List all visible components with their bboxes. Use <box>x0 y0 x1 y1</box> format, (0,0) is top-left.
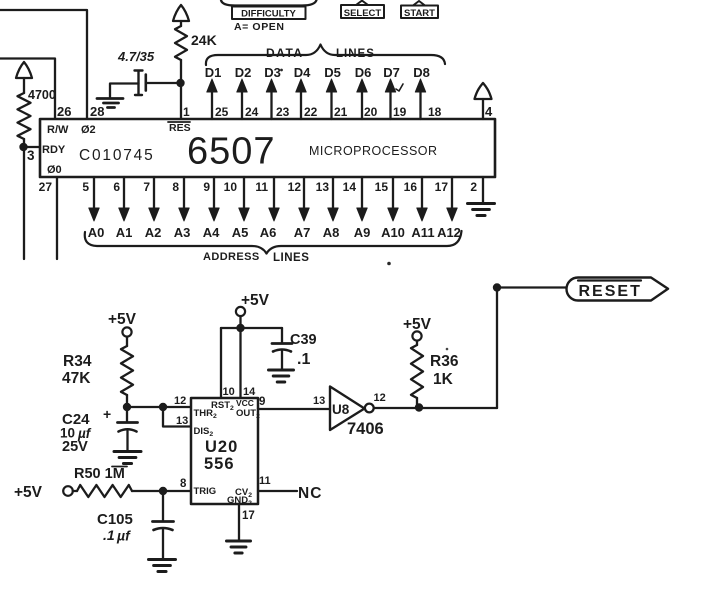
svg-text:17: 17 <box>435 180 449 194</box>
svg-text:4.7/35: 4.7/35 <box>117 49 155 64</box>
capacitor C24 (polarized) <box>60 406 138 455</box>
svg-text:12: 12 <box>288 180 302 194</box>
ADDRESS LINES text <box>203 251 309 264</box>
svg-text:D7: D7 <box>383 65 400 80</box>
ground (C39) <box>269 370 294 382</box>
svg-text:ADDRESS: ADDRESS <box>203 251 260 263</box>
svg-text:24K: 24K <box>191 32 217 48</box>
ground (C24) <box>114 452 141 464</box>
svg-text:A9: A9 <box>354 225 371 240</box>
svg-text:22: 22 <box>304 105 318 119</box>
IC U20 556 timer body <box>191 398 258 504</box>
svg-text:A2: A2 <box>145 225 162 240</box>
svg-text:START: START <box>404 8 435 19</box>
capacitor C39 <box>272 332 317 369</box>
svg-text:7: 7 <box>143 180 150 194</box>
resistor R34 47K <box>62 346 133 407</box>
bottom pin number labels <box>39 180 478 194</box>
console switch tab (rounded, cut off) <box>221 0 317 6</box>
svg-text:A= OPEN: A= OPEN <box>234 21 285 33</box>
svg-text:.1: .1 <box>297 351 310 368</box>
svg-text:6507: 6507 <box>187 131 276 173</box>
svg-text:A3: A3 <box>174 225 191 240</box>
svg-text:R34: R34 <box>63 353 92 370</box>
svg-text:RESET: RESET <box>579 283 642 300</box>
DIFFICULTY switch box <box>232 7 306 20</box>
SELECT switch box <box>341 1 384 19</box>
svg-text:TRIG: TRIG <box>194 486 217 497</box>
pin 1 RES label (active low) <box>168 122 191 134</box>
svg-text:SELECT: SELECT <box>344 8 382 19</box>
svg-text:12: 12 <box>174 395 186 407</box>
svg-text:D3: D3 <box>264 65 281 80</box>
address bus pins A0-A12 arrows down <box>89 177 457 221</box>
svg-text:Ø2: Ø2 <box>81 124 96 136</box>
IC 6507 microprocessor body <box>40 119 495 177</box>
svg-text:D1: D1 <box>205 65 222 80</box>
wire 24K to pin 1, node at cap tap <box>176 60 184 119</box>
svg-text:4700: 4700 <box>28 88 56 102</box>
svg-text:20: 20 <box>364 105 378 119</box>
U20 designator text <box>204 438 238 473</box>
svg-text:556: 556 <box>204 455 235 473</box>
svg-text:R50 1M: R50 1M <box>74 466 125 482</box>
DATA LINES brace <box>206 45 445 66</box>
svg-text:VCC: VCC <box>236 398 254 408</box>
svg-text:+5V: +5V <box>108 311 137 328</box>
wire pin 2 to ground <box>482 177 484 202</box>
svg-text:NC: NC <box>298 485 322 502</box>
stray pen check near D7 <box>396 84 403 91</box>
svg-text:C39: C39 <box>290 332 317 348</box>
wire to pin 13 DIS <box>163 407 191 427</box>
svg-text:C010745: C010745 <box>79 147 155 164</box>
data line labels D1-D8 <box>205 65 430 80</box>
svg-text:+5V: +5V <box>14 484 43 501</box>
ground (U20 pin 17) <box>227 541 251 553</box>
node THR junction / wire to pin 12 <box>123 403 191 411</box>
svg-text:2: 2 <box>470 180 477 194</box>
svg-text:Ø0: Ø0 <box>47 164 62 176</box>
svg-text:A12: A12 <box>437 225 461 240</box>
resistor R50 1M (with bar) <box>74 466 132 497</box>
wire R50 to pin 8 TRIG / node <box>132 487 191 495</box>
svg-text:RES: RES <box>169 122 191 134</box>
svg-text:5: 5 <box>82 180 89 194</box>
svg-text:D4: D4 <box>294 65 311 80</box>
svg-text:16: 16 <box>404 180 418 194</box>
svg-text:A6: A6 <box>260 225 277 240</box>
svg-text:RDY: RDY <box>42 144 66 156</box>
wire net to pin 26 (left) <box>0 59 55 120</box>
svg-text:27: 27 <box>39 180 53 194</box>
resistor R36 1K <box>411 345 459 407</box>
svg-text:14: 14 <box>243 386 256 398</box>
svg-text:A8: A8 <box>323 225 340 240</box>
svg-text:6: 6 <box>113 180 120 194</box>
svg-text:13: 13 <box>176 415 188 427</box>
svg-text:19: 19 <box>393 105 407 119</box>
wire U8 output to riser <box>374 403 497 411</box>
svg-text:A11: A11 <box>411 225 434 240</box>
svg-text:A10: A10 <box>381 225 405 240</box>
svg-text:10: 10 <box>224 180 238 194</box>
svg-text:C105: C105 <box>97 511 133 528</box>
wire 4700 down / node pin3 junction <box>19 139 40 259</box>
svg-text:R36: R36 <box>430 353 459 370</box>
svg-text:A1: A1 <box>116 225 133 240</box>
svg-text:U8: U8 <box>332 402 350 417</box>
svg-text:15: 15 <box>375 180 389 194</box>
svg-text:10: 10 <box>223 386 235 398</box>
svg-text:26: 26 <box>57 104 71 119</box>
svg-text:+5V: +5V <box>241 292 270 309</box>
svg-text:.1: .1 <box>103 527 115 543</box>
DATA LINES text <box>266 46 375 60</box>
power +5V terminal (R50) <box>14 484 77 501</box>
svg-text:18: 18 <box>428 105 442 119</box>
inverter U8 7406 <box>330 387 384 439</box>
svg-text:1K: 1K <box>433 371 454 388</box>
U20 internal pin names <box>194 398 261 507</box>
capacitor 4.7/35 <box>110 49 176 97</box>
power +5V arrow (above 4700) <box>16 62 32 93</box>
power +5V terminal (R34) <box>108 311 137 346</box>
svg-text:LINES: LINES <box>273 252 309 264</box>
svg-text:28: 28 <box>90 104 104 119</box>
ground (C105) <box>149 560 176 572</box>
svg-text:A0: A0 <box>88 225 105 240</box>
svg-text:11: 11 <box>259 475 271 487</box>
svg-text:4: 4 <box>485 104 493 119</box>
svg-text:D5: D5 <box>324 65 341 80</box>
svg-text:21: 21 <box>334 105 348 119</box>
resistor 24K <box>175 26 217 60</box>
IC 6507 internal labels <box>42 124 438 176</box>
svg-text:U20: U20 <box>205 438 238 456</box>
svg-text:25V: 25V <box>62 439 88 455</box>
svg-text:R/W: R/W <box>47 124 69 136</box>
wire riser to RESET / node <box>493 283 567 408</box>
svg-text:25: 25 <box>215 105 229 119</box>
wire pin 27 down <box>56 177 58 259</box>
power +5V terminal (R36) <box>403 316 432 345</box>
svg-text:23: 23 <box>276 105 290 119</box>
svg-text:47K: 47K <box>62 370 91 387</box>
svg-text:11: 11 <box>255 180 268 194</box>
address line labels A0-A12 <box>88 225 461 240</box>
ADDRESS LINES brace <box>85 231 462 254</box>
svg-text:24: 24 <box>245 105 259 119</box>
power +5V terminal (U20 supply) <box>236 292 270 328</box>
wire U20 pin 9 to U8 input <box>258 408 330 410</box>
svg-text:17: 17 <box>242 510 255 522</box>
svg-text:12: 12 <box>374 392 386 404</box>
capacitor C105 <box>97 491 174 558</box>
svg-text:A4: A4 <box>203 225 220 240</box>
top pin number labels <box>57 104 493 119</box>
ground (pin 2) <box>468 204 495 216</box>
power +5V arrow (above 24K) <box>173 5 189 26</box>
svg-text:D6: D6 <box>355 65 372 80</box>
svg-text:13: 13 <box>313 395 325 407</box>
svg-text:9: 9 <box>203 180 210 194</box>
wire net to pin 28 (top-left) <box>0 10 87 119</box>
ground (4.7/35 cap) <box>97 99 123 108</box>
svg-text:8: 8 <box>172 180 179 194</box>
svg-text:7406: 7406 <box>347 420 384 438</box>
resistor 4700 <box>18 88 56 139</box>
svg-text:LINES: LINES <box>336 48 375 60</box>
wire U20 GND pin 17 <box>238 504 240 540</box>
svg-text:1: 1 <box>183 105 190 119</box>
stray scan specks <box>280 69 448 351</box>
svg-text:14: 14 <box>343 180 357 194</box>
svg-text:A5: A5 <box>232 225 249 240</box>
svg-text:9: 9 <box>259 396 265 408</box>
svg-text:DATA: DATA <box>266 46 304 60</box>
svg-text:A7: A7 <box>294 225 311 240</box>
svg-text:+: + <box>103 406 111 422</box>
svg-text:MICROPROCESSOR: MICROPROCESSOR <box>309 144 438 158</box>
svg-text:3: 3 <box>27 148 35 163</box>
power +5V arrow (pin 4) <box>475 83 492 119</box>
svg-text:D8: D8 <box>413 65 430 80</box>
wire +5V rail to pins 10,14 and C39 <box>221 324 282 398</box>
svg-text:µf: µf <box>116 528 131 544</box>
svg-text:DIFFICULTY: DIFFICULTY <box>241 9 296 20</box>
data bus pins D1-D8 arrows up <box>207 79 426 119</box>
wire U20 pin 11 to NC <box>258 490 297 492</box>
RESET output flag <box>567 278 669 301</box>
svg-text:13: 13 <box>316 180 330 194</box>
svg-text:D2: D2 <box>235 65 252 80</box>
START switch box <box>401 1 438 19</box>
svg-text:8: 8 <box>180 478 187 490</box>
